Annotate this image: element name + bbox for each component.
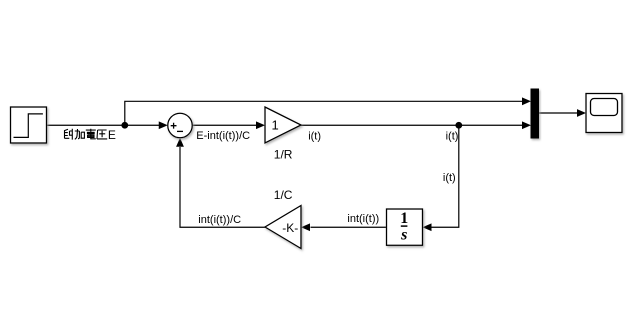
svg-text:s: s [400,227,407,244]
svg-text:int(i(t)): int(i(t)) [347,213,379,225]
svg-text:1: 1 [272,118,279,133]
svg-text:-K-: -K- [282,221,298,235]
svg-text:1/R: 1/R [274,148,293,162]
svg-text:1: 1 [400,210,408,227]
svg-text:i(t): i(t) [308,130,321,142]
svg-text:int(i(t))/C: int(i(t))/C [198,214,241,226]
svg-text:i(t): i(t) [446,130,459,142]
svg-text:E-int(i(t))/C: E-int(i(t))/C [196,130,250,142]
svg-text:1/C: 1/C [274,188,293,202]
svg-text:i(t): i(t) [443,172,456,184]
svg-text:E: E [108,128,116,142]
